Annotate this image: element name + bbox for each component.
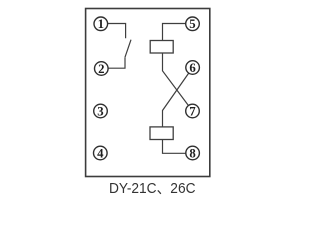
svg-text:2: 2 bbox=[98, 62, 104, 76]
svg-text:5: 5 bbox=[189, 17, 195, 31]
svg-text:1: 1 bbox=[98, 17, 104, 31]
svg-text:6: 6 bbox=[189, 61, 196, 75]
svg-text:4: 4 bbox=[97, 146, 104, 160]
svg-text:3: 3 bbox=[97, 104, 103, 118]
svg-text:7: 7 bbox=[189, 104, 196, 118]
svg-text:DY-21C、26C: DY-21C、26C bbox=[109, 180, 196, 197]
svg-text:8: 8 bbox=[189, 146, 195, 160]
